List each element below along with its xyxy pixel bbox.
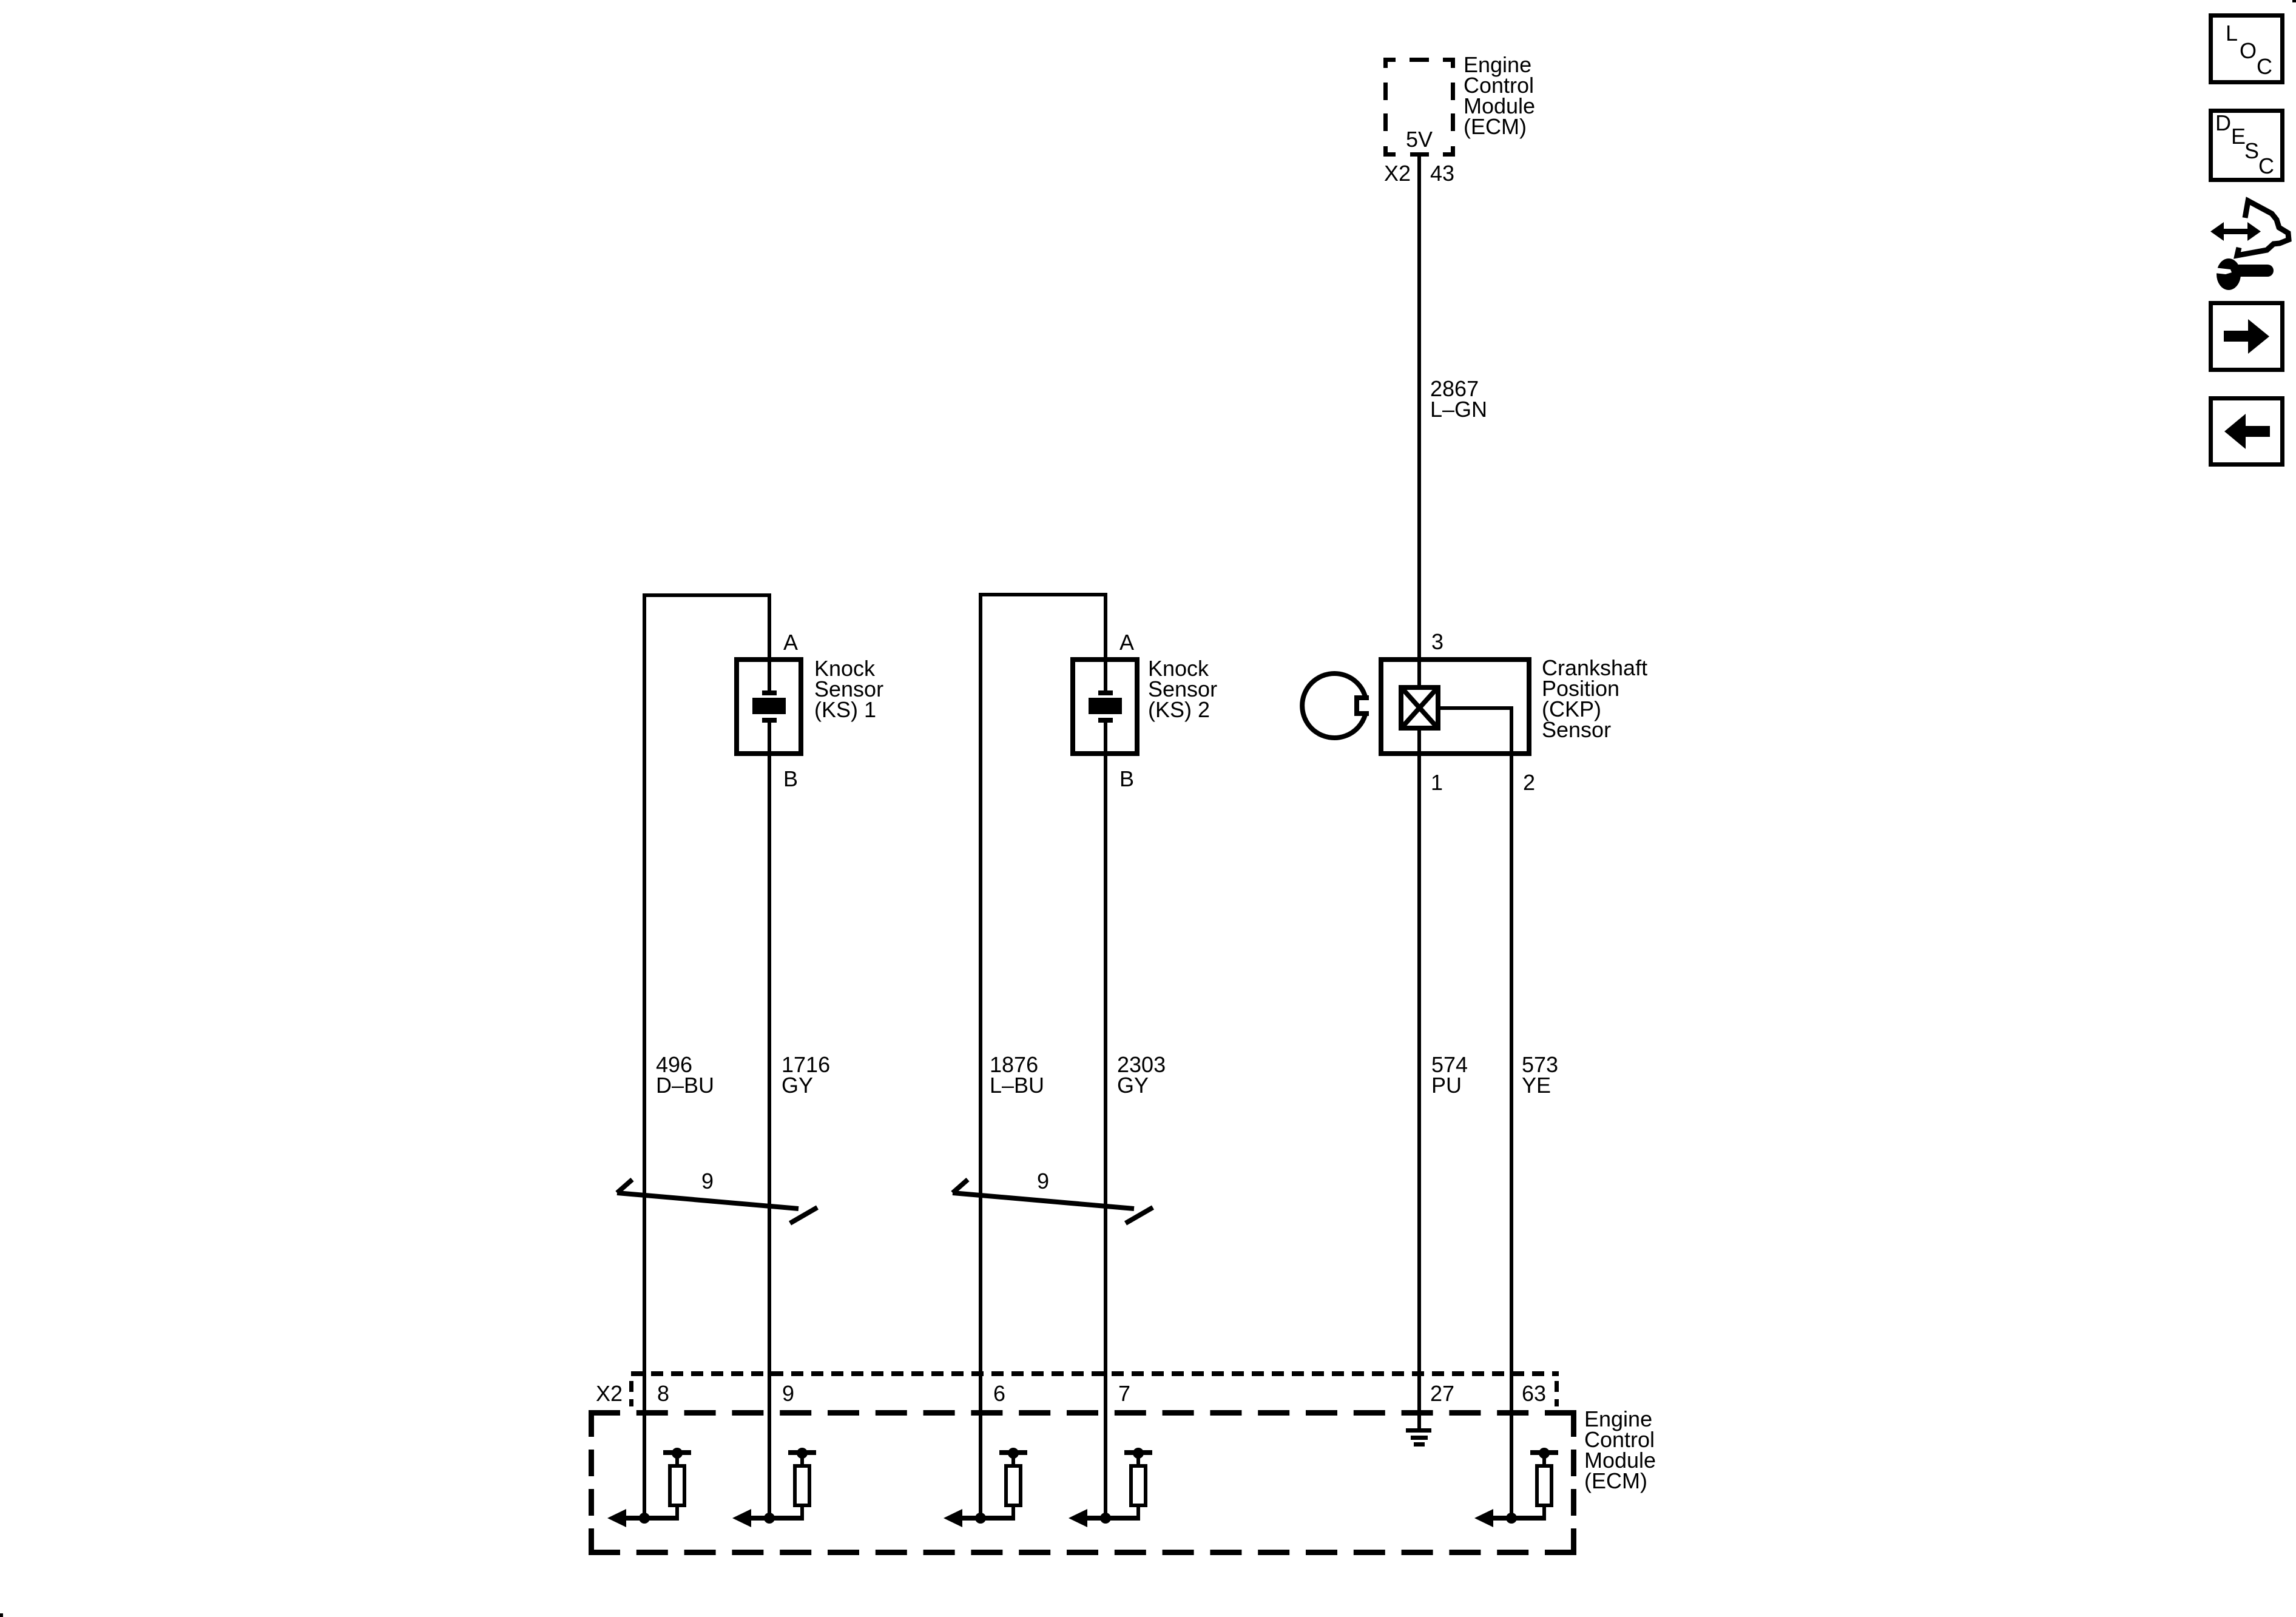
svg-text:9: 9 [1037, 1169, 1049, 1193]
page corner mark top right [2292, 0, 2296, 2]
knock sensor KS2 box [1073, 660, 1137, 754]
KS1 piezo element [752, 690, 786, 723]
wire 2303 GY (right vertical, pin A to pin 7) [1104, 593, 1107, 690]
CKP outer box [1381, 660, 1529, 754]
svg-text:7: 7 [1118, 1381, 1130, 1406]
wire KS2 top horizontal [979, 593, 1107, 596]
ECM internal load pin 7 [1069, 1448, 1152, 1527]
ECM internal load pin 8 [607, 1448, 691, 1527]
wire CKP pin 2 horizontal jog [1439, 706, 1513, 710]
svg-text:GY: GY [1117, 1073, 1149, 1098]
wire 574 PU (CKP pin 1 to ECM pin 27) [1417, 731, 1421, 1428]
svg-text:S: S [2244, 138, 2259, 163]
wire 1716 GY (right vertical, pin A to pin 9) [768, 593, 771, 690]
ECM internal load pin 6 [944, 1448, 1027, 1527]
ground symbol pin 27 [1406, 1428, 1431, 1447]
label Crankshaft Position (CKP) Sensor [1542, 655, 1647, 742]
svg-text:L: L [2226, 21, 2238, 46]
connector X2 dotted line bottom [629, 1374, 1559, 1406]
svg-text:(ECM): (ECM) [1464, 114, 1527, 139]
wire label 1876 L-BU [990, 1052, 1044, 1098]
svg-text:6: 6 [993, 1381, 1005, 1406]
wire 1876 L-BU (left vertical, pin 6) [979, 593, 982, 1518]
svg-text:(ECM): (ECM) [1584, 1468, 1647, 1493]
svg-text:L–GN: L–GN [1430, 397, 1487, 422]
svg-text:8: 8 [657, 1381, 669, 1406]
svg-text:E: E [2231, 124, 2246, 149]
knock sensor KS1 box [737, 660, 801, 754]
page corner mark bottom left [0, 1613, 3, 1617]
nav icon DESC box [2211, 110, 2283, 180]
svg-text:YE: YE [1522, 1073, 1551, 1098]
label Knock Sensor (KS) 2 [1148, 656, 1217, 722]
svg-text:D: D [2215, 110, 2231, 135]
wire 2867 L-GN (ECM pin 43 to CKP pin 3) [1417, 155, 1421, 685]
svg-text:(KS) 1: (KS) 1 [814, 697, 876, 722]
nav icon LOC box [2211, 16, 2283, 83]
label Engine Control Module (ECM) top [1464, 52, 1535, 139]
CKP element X cross [1403, 690, 1436, 726]
nav icon previous arrow box [2211, 399, 2283, 465]
svg-text:5V: 5V [1406, 127, 1433, 152]
wire label 2867 L-GN [1430, 376, 1487, 422]
CKP reluctor wheel circle with notch [1302, 673, 1369, 738]
label Engine Control Module (ECM) bottom [1584, 1406, 1656, 1493]
svg-text:2: 2 [1523, 770, 1535, 795]
svg-text:27: 27 [1430, 1381, 1454, 1406]
twisted pair symbol KS1 wires [617, 1180, 817, 1223]
svg-text:(KS) 2: (KS) 2 [1148, 697, 1210, 722]
svg-text:D–BU: D–BU [656, 1073, 714, 1098]
wire 496 D-BU (left vertical, pin 8) [643, 593, 646, 1518]
svg-text:1: 1 [1431, 770, 1443, 795]
svg-text:X2: X2 [596, 1381, 623, 1406]
svg-text:A: A [783, 630, 798, 655]
twisted pair symbol KS2 wires [953, 1180, 1153, 1223]
wire label 496 D-BU [656, 1052, 714, 1098]
svg-text:63: 63 [1522, 1381, 1546, 1406]
wire label 1716 GY [782, 1052, 830, 1098]
wire label 2303 GY [1117, 1052, 1166, 1098]
svg-text:9: 9 [782, 1381, 794, 1406]
svg-text:Sensor: Sensor [1542, 717, 1611, 742]
CKP inner sensing element box [1401, 687, 1438, 728]
nav icon next arrow box [2211, 303, 2283, 370]
ECM internal load pin 9 [732, 1448, 816, 1527]
svg-text:L–BU: L–BU [990, 1073, 1044, 1098]
svg-text:3: 3 [1431, 629, 1443, 654]
ECM top dashed box (connector X2 pin 43) [1383, 58, 1455, 157]
nav icon component-view (double arrow, part outline, wrench) [2210, 201, 2289, 290]
wire label 573 YE [1522, 1052, 1558, 1098]
wire 573 YE (CKP pin 2 to ECM pin 63) [1510, 706, 1513, 1518]
label Knock Sensor (KS) 1 [814, 656, 883, 722]
svg-text:9: 9 [701, 1169, 714, 1193]
svg-text:C: C [2258, 154, 2274, 178]
ECM bottom dashed box [589, 1410, 1576, 1555]
svg-text:PU: PU [1431, 1073, 1462, 1098]
svg-text:GY: GY [782, 1073, 813, 1098]
svg-text:X2: X2 [1384, 161, 1411, 186]
svg-text:43: 43 [1430, 161, 1454, 186]
svg-text:B: B [783, 766, 798, 791]
svg-text:A: A [1119, 630, 1134, 655]
svg-text:C: C [2257, 54, 2272, 79]
svg-text:O: O [2240, 38, 2257, 63]
KS2 piezo element [1089, 690, 1122, 723]
wire KS1 top horizontal [643, 593, 771, 597]
svg-text:B: B [1119, 766, 1134, 791]
ECM internal load pin 63 [1474, 1448, 1558, 1527]
wire label 574 PU [1431, 1052, 1468, 1098]
